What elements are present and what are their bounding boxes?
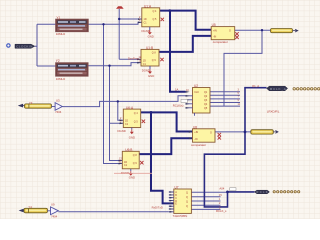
svg-text:DGND: DGND bbox=[118, 129, 126, 133]
svg-text:GND: GND bbox=[148, 35, 154, 39]
svg-text:Q 5: Q 5 bbox=[153, 18, 158, 21]
svg-text:CLK: CLK bbox=[194, 91, 199, 94]
svg-text:U5: U5 bbox=[212, 23, 216, 27]
svg-text:A04: A04 bbox=[219, 186, 224, 190]
svg-text:Q: Q bbox=[186, 191, 188, 194]
svg-text:U6:A: U6:A bbox=[126, 106, 134, 110]
svg-text:DGND: DGND bbox=[142, 29, 150, 33]
svg-text:Y1: Y1 bbox=[56, 16, 60, 20]
svg-text:U6:B: U6:B bbox=[125, 148, 132, 152]
svg-text:74HC595N: 74HC595N bbox=[173, 214, 188, 218]
svg-text:1A: 1A bbox=[175, 88, 179, 92]
svg-text:GND: GND bbox=[148, 74, 154, 78]
svg-text:Y2: Y2 bbox=[56, 59, 60, 63]
svg-text:Q: Q bbox=[186, 201, 188, 204]
svg-text:Q 9: Q 9 bbox=[152, 59, 157, 62]
svg-text:U2: U2 bbox=[194, 84, 198, 88]
svg-text:7404: 7404 bbox=[55, 110, 62, 114]
svg-text:U9: U9 bbox=[51, 202, 55, 206]
svg-text:GND: GND bbox=[129, 135, 135, 139]
svg-text:Q 8: Q 8 bbox=[152, 51, 157, 54]
svg-text:Q: Q bbox=[186, 205, 188, 208]
svg-text:CLOCKIN: CLOCKIN bbox=[16, 45, 32, 49]
svg-text:comparator: comparator bbox=[191, 143, 206, 147]
svg-text:LRXD/RL: LRXD/RL bbox=[267, 110, 280, 114]
svg-text:GND: GND bbox=[129, 175, 135, 179]
svg-text:O: O bbox=[229, 29, 231, 32]
svg-text:U8: U8 bbox=[193, 125, 197, 129]
svg-text:Y3: Y3 bbox=[29, 101, 33, 105]
svg-text:U1:A: U1:A bbox=[144, 5, 152, 9]
svg-text:RCLK: RCLK bbox=[257, 190, 268, 194]
svg-text:DGND: DGND bbox=[142, 69, 150, 73]
svg-text:Q1_A: Q1_A bbox=[252, 84, 259, 88]
svg-text:Q 4: Q 4 bbox=[153, 10, 158, 13]
svg-text:Q 9: Q 9 bbox=[133, 162, 138, 165]
svg-text:U7: U7 bbox=[175, 185, 179, 189]
svg-text:Y4: Y4 bbox=[28, 205, 32, 209]
svg-text:RCLK(s): RCLK(s) bbox=[173, 104, 184, 108]
svg-text:-IN: -IN bbox=[194, 138, 197, 141]
svg-text:-IN: -IN bbox=[213, 35, 216, 38]
svg-text:O: O bbox=[210, 131, 212, 134]
svg-text:Q: Q bbox=[186, 196, 188, 199]
svg-text:+IN: +IN bbox=[213, 29, 217, 32]
svg-text:Q 5: Q 5 bbox=[134, 121, 139, 124]
svg-text:+IN: +IN bbox=[194, 131, 198, 134]
svg-text:RxD/TxD: RxD/TxD bbox=[152, 206, 163, 210]
svg-text:DecFreq: DecFreq bbox=[128, 56, 139, 60]
svg-text:RCLK_s: RCLK_s bbox=[216, 209, 227, 213]
svg-text:Q 8: Q 8 bbox=[133, 154, 138, 157]
svg-text:10MHz: 10MHz bbox=[56, 77, 66, 81]
svg-text:MCLK_A: MCLK_A bbox=[270, 87, 286, 91]
svg-text:Q 4: Q 4 bbox=[134, 112, 139, 115]
svg-text:10MHz: 10MHz bbox=[56, 32, 66, 36]
svg-text:U3: U3 bbox=[56, 99, 60, 103]
svg-text:comparator: comparator bbox=[213, 40, 228, 44]
svg-text:U1:B: U1:B bbox=[146, 46, 153, 50]
svg-text:7404: 7404 bbox=[51, 215, 58, 219]
